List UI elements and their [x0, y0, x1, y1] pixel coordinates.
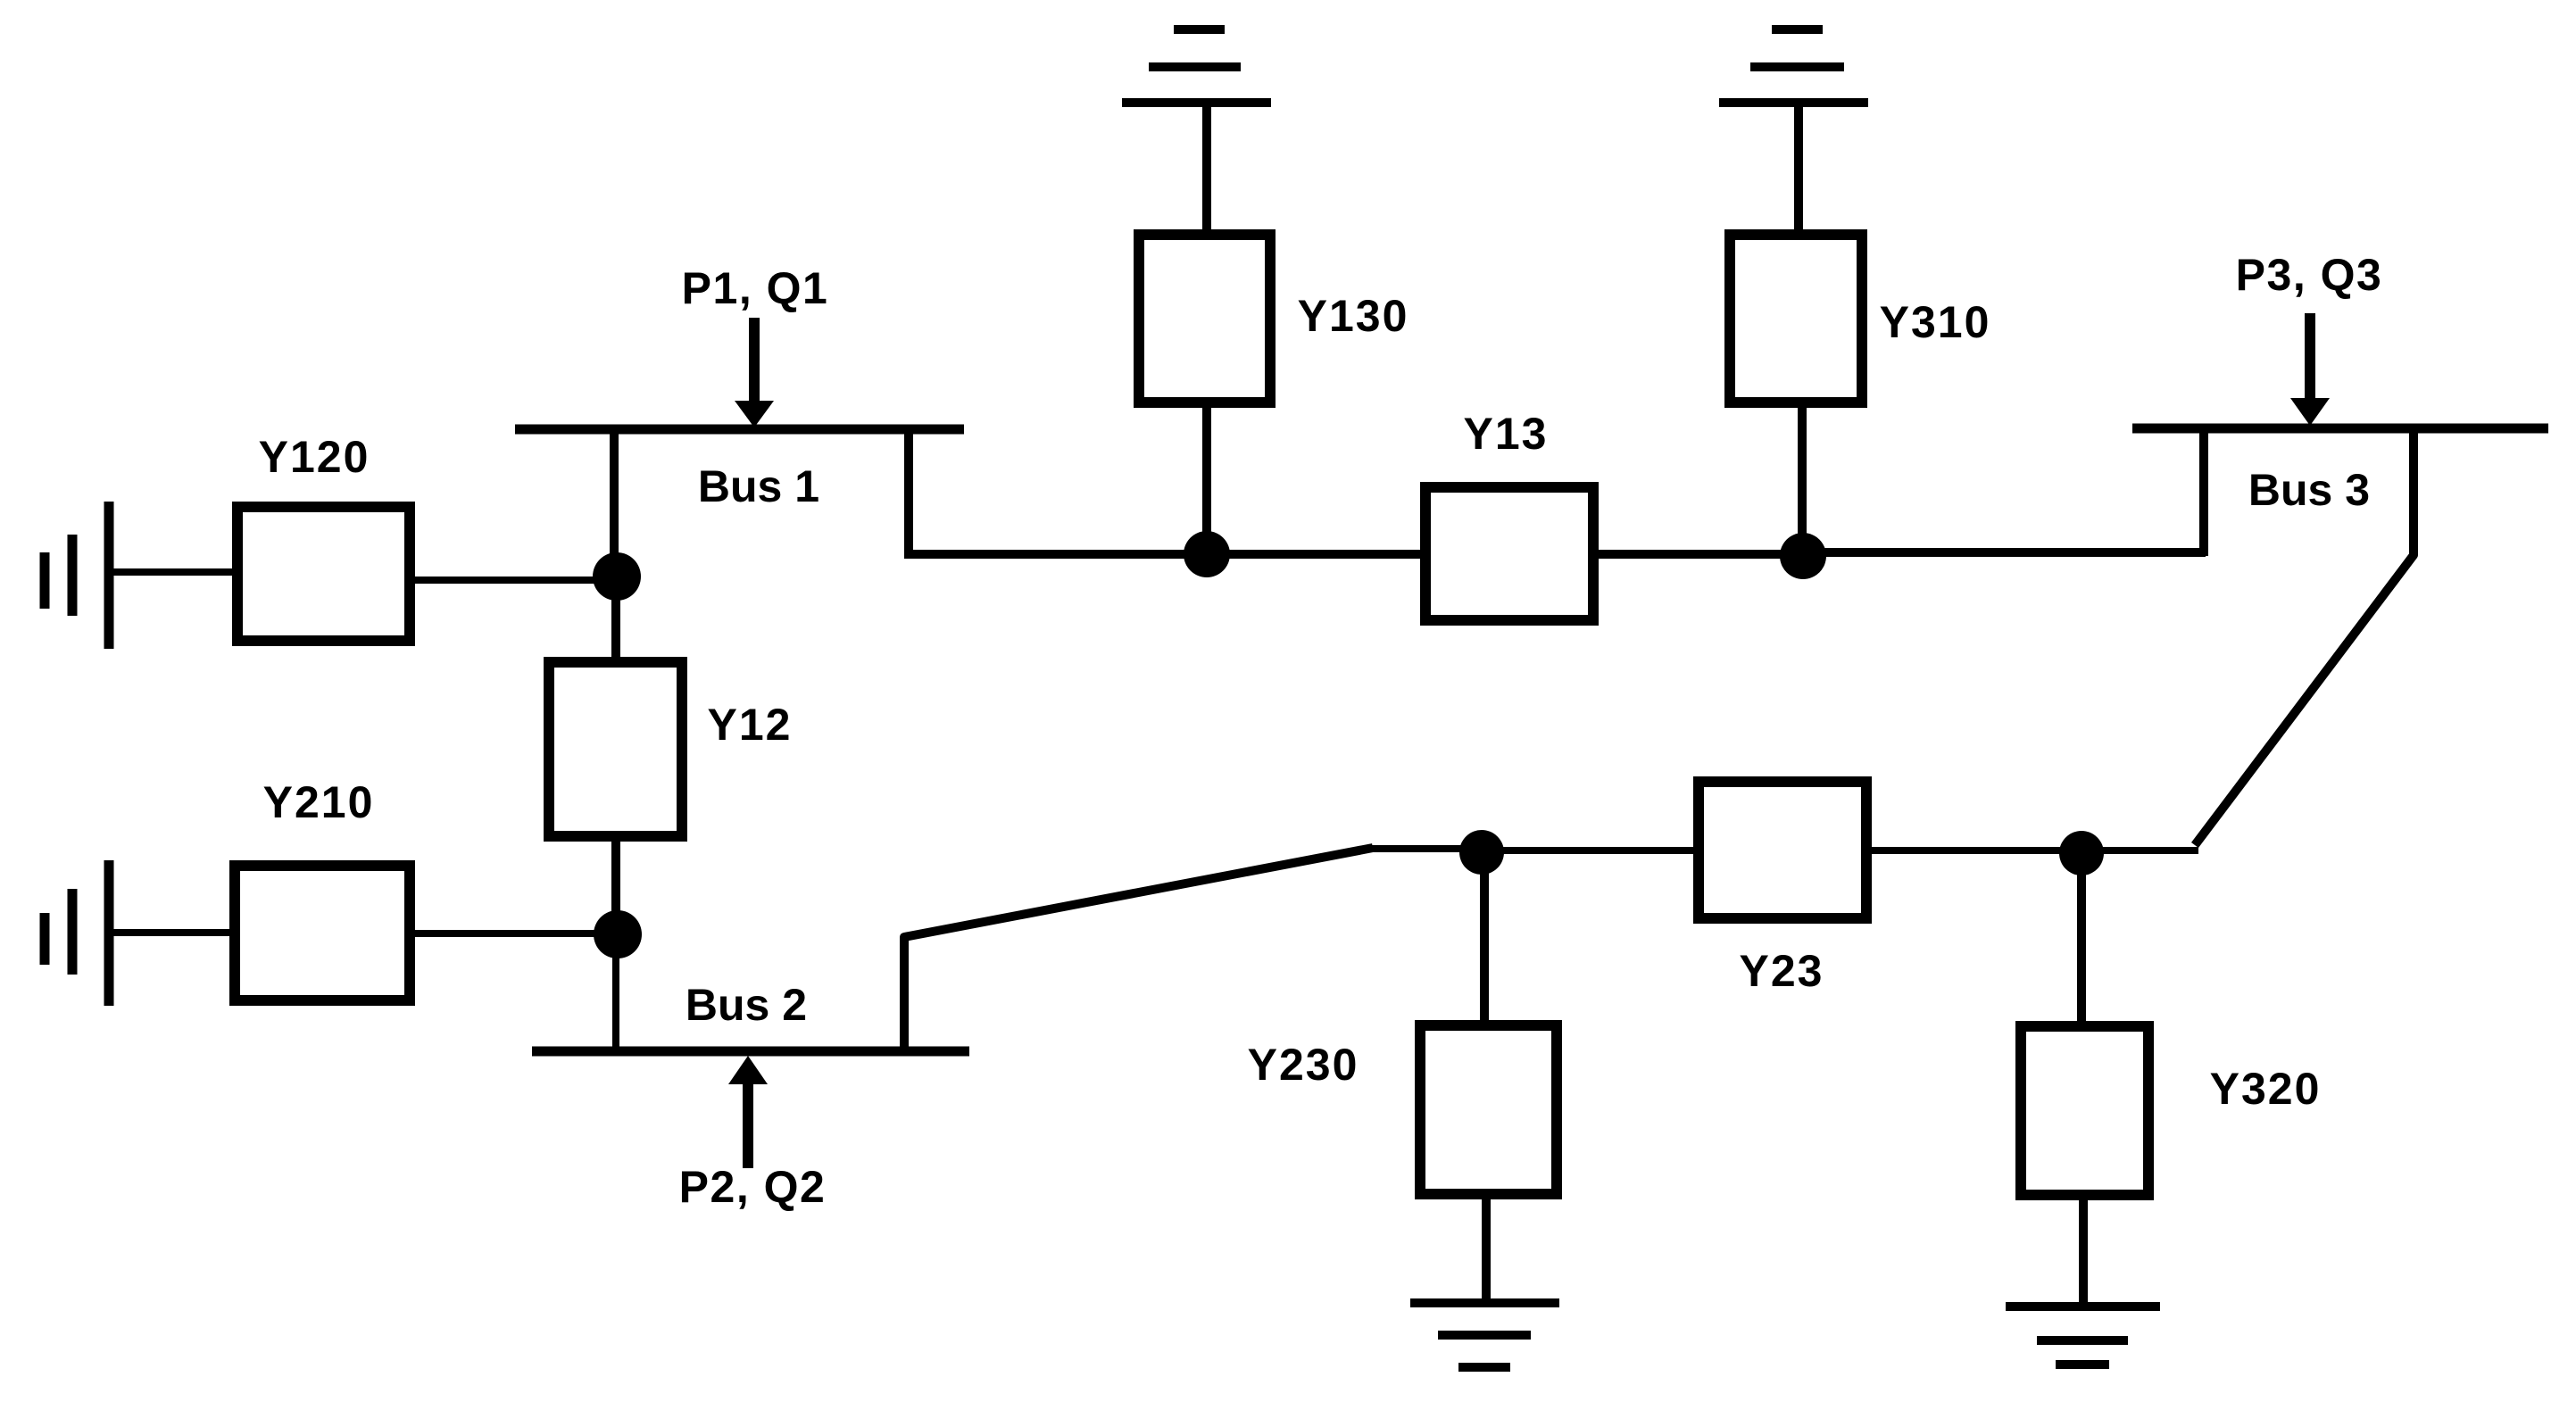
wire Bus2 right stub and diagonal to node E rail	[904, 848, 1373, 1051]
wire Y210 to node B	[410, 930, 619, 937]
svg-text:Y12: Y12	[708, 700, 793, 750]
wire rail diagonal to node E	[1371, 845, 1482, 852]
arrow P2,Q2 into Bus 2	[728, 1056, 768, 1168]
svg-text:P2, Q2: P2, Q2	[679, 1162, 827, 1212]
bus bar Bus 3	[2132, 424, 2548, 434]
wire node E to Y23	[1482, 847, 1696, 854]
ground G5 (below Y230)	[1410, 1303, 1559, 1367]
bus bar Bus 2	[532, 1047, 969, 1057]
wire Y13 to node D	[1597, 550, 1805, 559]
svg-text:Bus 2: Bus 2	[686, 980, 807, 1030]
admittance box Y120	[237, 507, 410, 641]
ground G2 (left of Y210)	[45, 860, 109, 1006]
wire G3 to Y130	[1202, 105, 1211, 232]
wire node F to Y320	[2077, 853, 2086, 1024]
svg-text:Y120: Y120	[259, 432, 370, 482]
wire Y230 to ground G5	[1482, 1194, 1491, 1303]
svg-text:P3, Q3: P3, Q3	[2236, 250, 2383, 300]
wire Y310 to node D	[1798, 402, 1807, 555]
svg-text:P1, Q1: P1, Q1	[682, 263, 829, 313]
wire G1 to Y120	[109, 568, 234, 576]
svg-text:Y310: Y310	[1880, 297, 1991, 347]
arrow P3,Q3 into Bus 3	[2290, 313, 2330, 426]
admittance box Y310	[1730, 235, 1862, 402]
svg-text:Y210: Y210	[263, 777, 375, 827]
node D junction dot	[1780, 533, 1826, 579]
node B junction dot	[594, 910, 642, 958]
wire node B to Bus 2	[612, 934, 619, 1049]
wire Bus3 left stub	[2199, 431, 2208, 556]
wire node D to Bus3 left stub	[1802, 548, 2206, 557]
admittance box Y12	[549, 662, 682, 836]
svg-text:Y130: Y130	[1298, 291, 1409, 341]
admittance box Y130	[1139, 235, 1270, 402]
wire rail Bus1 stub to Y13	[904, 550, 1422, 559]
wire node A to Y12	[611, 577, 620, 660]
wire Y23 to node F	[1866, 847, 2082, 854]
ground G6 (below Y320)	[2006, 1307, 2160, 1365]
svg-text:Y23: Y23	[1740, 946, 1824, 996]
wire G4 to Y310	[1794, 105, 1803, 232]
wire node E to Y230	[1480, 852, 1489, 1023]
svg-text:Bus 3: Bus 3	[2248, 465, 2370, 515]
admittance box Y210	[235, 866, 410, 1000]
admittance box Y230	[1420, 1025, 1557, 1194]
arrow P1,Q1 into Bus 1	[735, 318, 774, 427]
ground G4 (above Y310)	[1719, 29, 1868, 103]
wire G2 to Y210	[109, 929, 235, 936]
svg-text:Y13: Y13	[1464, 409, 1549, 459]
bus bar Bus 1	[515, 425, 964, 435]
wire rail node F to diagonal	[2082, 847, 2198, 854]
node C junction dot	[1184, 531, 1230, 577]
node F junction dot	[2059, 831, 2104, 875]
admittance box Y23	[1699, 782, 1866, 918]
node A junction dot	[593, 552, 641, 601]
node E junction dot	[1459, 830, 1504, 875]
wire Y130 to node C	[1202, 402, 1211, 554]
wire Y12 to node B	[611, 842, 620, 933]
wire Y120 to node A	[415, 577, 617, 584]
svg-text:Bus 1: Bus 1	[698, 461, 819, 511]
wire Bus1 drop to node A	[610, 431, 619, 580]
svg-text:Y230: Y230	[1248, 1040, 1359, 1090]
admittance box Y13	[1425, 487, 1593, 620]
svg-text:Y320: Y320	[2210, 1064, 2322, 1114]
ground G3 (above Y130)	[1122, 29, 1271, 103]
ground G1 (left of Y120)	[45, 502, 109, 649]
wire Bus3 right stub	[2195, 431, 2414, 845]
wire Y320 to ground G6	[2079, 1195, 2088, 1307]
wire Bus1 right stub	[904, 431, 913, 554]
admittance box Y320	[2021, 1026, 2148, 1195]
